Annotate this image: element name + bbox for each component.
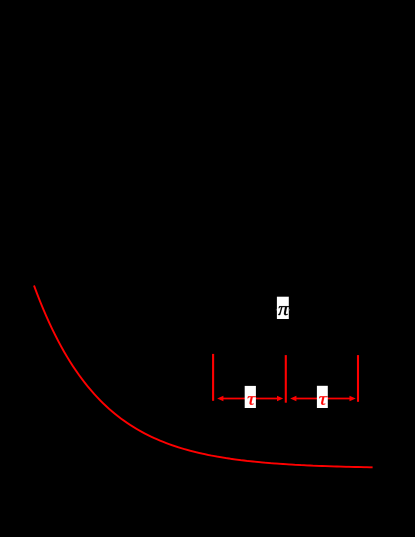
tau label text 1 <box>247 396 255 404</box>
arrow tau-2 left head <box>290 396 296 401</box>
arrow tau-1 shaft <box>222 398 278 400</box>
arrow tau-1 right head <box>277 396 283 401</box>
pi label arrow fringe right <box>289 309 290 311</box>
arrow tau-2 right head <box>350 396 356 401</box>
tau label text 2 <box>319 396 327 404</box>
decay curve (red exponential) <box>34 286 373 468</box>
pulse line 3 <box>357 355 359 402</box>
tau label box 2 <box>317 386 328 408</box>
pulse line 1 <box>212 354 214 401</box>
arrow tau-2 shaft <box>295 398 351 400</box>
tau label box 1 <box>245 386 256 408</box>
arrow tau-1 left head <box>217 396 223 401</box>
pi label arrow fringe left <box>276 309 277 311</box>
pi label box <box>277 297 289 319</box>
pi label text <box>278 306 289 315</box>
pulse line 2 <box>285 355 287 403</box>
